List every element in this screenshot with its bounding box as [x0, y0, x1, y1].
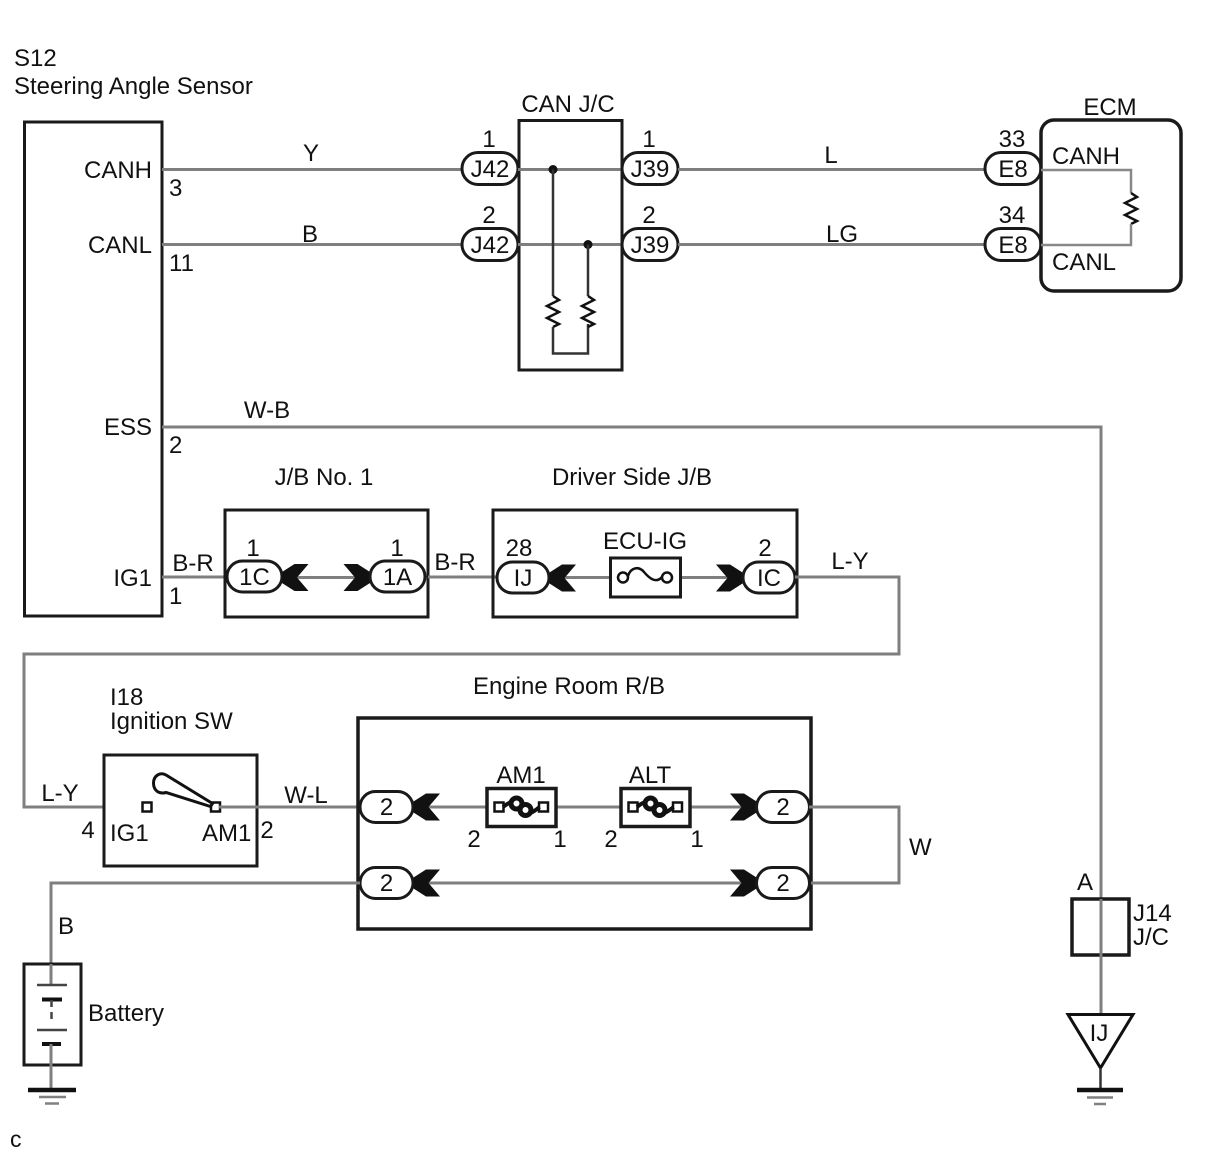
junction block Engine Room R/B box — [358, 673, 811, 929]
svg-text:J39: J39 — [631, 232, 670, 259]
svg-text:CAN J/C: CAN J/C — [521, 91, 614, 118]
switch contact IG1 — [143, 803, 152, 812]
svg-text:2: 2 — [604, 826, 617, 853]
svg-text:1: 1 — [169, 583, 182, 610]
svg-text:CANL: CANL — [88, 232, 152, 259]
svg-text:Battery: Battery — [88, 1000, 164, 1027]
svg-text:CANH: CANH — [1052, 143, 1120, 170]
connector 2 row1 right — [757, 792, 810, 823]
pin ESS of S12 — [104, 414, 182, 459]
svg-text:IJ: IJ — [514, 565, 533, 592]
component S12 Steering Angle Sensor box — [14, 45, 253, 616]
svg-text:S12: S12 — [14, 45, 57, 72]
svg-text:ECM: ECM — [1083, 94, 1136, 121]
connector 2 row1 left — [360, 792, 413, 823]
svg-text:2: 2 — [169, 432, 182, 459]
connector IJ pin 28 — [497, 535, 549, 593]
wire inside ECM bottom — [1041, 224, 1131, 245]
wire CANL through CAN J/C — [518, 243, 622, 246]
svg-text:2: 2 — [467, 826, 480, 853]
connector arrow male before IC — [716, 565, 743, 592]
ground battery — [28, 1090, 76, 1104]
wire CANH (Y) S12 to J42 — [162, 140, 462, 170]
connector arrow female row2 — [414, 870, 441, 897]
wire through J14 to IJ ground point — [1100, 899, 1103, 1014]
connector E8 pin 34 — [985, 202, 1041, 261]
svg-text:2: 2 — [758, 535, 771, 562]
svg-text:B: B — [58, 913, 74, 940]
svg-text:1: 1 — [553, 826, 566, 853]
pin 2 AM1 of ignition switch — [202, 817, 274, 847]
connector 2 row2 right — [757, 868, 810, 899]
wire CANH through CAN J/C — [518, 168, 622, 171]
wire W-L switch to Engine Room R/B — [219, 782, 360, 809]
svg-text:W: W — [909, 834, 932, 861]
connector arrow female row1 — [414, 794, 441, 821]
svg-text:2: 2 — [776, 870, 789, 897]
wire battery to ground — [50, 1044, 53, 1090]
connector 1C pin 1 — [227, 535, 282, 592]
svg-text:Y: Y — [303, 140, 319, 167]
svg-text:AM1: AM1 — [496, 762, 545, 789]
wire W-B ESS to J14 — [162, 397, 1101, 899]
ground IJ — [1077, 1090, 1123, 1104]
svg-text:ECU-IG: ECU-IG — [603, 528, 687, 555]
wire W row1 to row2 — [809, 807, 932, 883]
svg-text:1: 1 — [482, 126, 495, 153]
wire B row2 to battery — [51, 883, 360, 964]
ground point IJ triangle — [1068, 1015, 1133, 1069]
pin CANH of S12 — [84, 157, 182, 202]
svg-text:W-B: W-B — [244, 397, 290, 424]
switch I18 Ignition SW box — [104, 684, 257, 866]
svg-text:CANH: CANH — [84, 157, 152, 184]
pin IG1 of S12 — [113, 565, 182, 610]
wire below left resistor — [553, 324, 588, 354]
wire B-R S12 IG1 to J/B — [162, 550, 227, 577]
connector arrow male row1 — [730, 794, 757, 821]
terminating resistor left in CAN J/C — [547, 296, 559, 327]
svg-text:4: 4 — [81, 817, 94, 844]
connector J39 pin 2 — [622, 202, 678, 261]
fusible link ALT — [604, 762, 703, 853]
wire from CANL junction down — [587, 245, 590, 297]
svg-text:A: A — [1077, 869, 1093, 896]
svg-text:2: 2 — [776, 794, 789, 821]
svg-text:Engine Room R/B: Engine Room R/B — [473, 673, 665, 700]
svg-text:1A: 1A — [383, 564, 412, 591]
connector arrow female after IJ — [550, 565, 577, 592]
connector 2 row2 left — [360, 868, 413, 899]
svg-text:E8: E8 — [998, 232, 1027, 259]
svg-text:B-R: B-R — [172, 550, 213, 577]
svg-text:J14: J14 — [1133, 900, 1172, 927]
connector arrow male before 1A — [344, 564, 371, 591]
wire inside J/B No.1 — [282, 576, 370, 579]
svg-text:IJ: IJ — [1090, 1020, 1109, 1047]
svg-text:L: L — [824, 142, 837, 169]
wire from CANH junction down — [552, 170, 555, 297]
wire inside ECM top — [1041, 170, 1131, 193]
svg-text:J39: J39 — [631, 156, 670, 183]
svg-text:CANL: CANL — [1052, 249, 1116, 276]
svg-text:J/B No. 1: J/B No. 1 — [275, 464, 374, 491]
connector E8 pin 33 — [985, 126, 1041, 185]
junction block J/B No. 1 box — [225, 464, 428, 617]
wire B-R 1A to Driver Side J/B — [428, 549, 497, 577]
wire L-Y from IC down and across to ignition switch — [24, 548, 899, 807]
svg-text:2: 2 — [260, 817, 273, 844]
connector arrow female after 1C — [282, 564, 309, 591]
svg-text:28: 28 — [506, 535, 533, 562]
svg-text:1: 1 — [690, 826, 703, 853]
svg-text:33: 33 — [999, 126, 1026, 153]
terminating resistor right in CAN J/C — [582, 296, 594, 327]
svg-text:W-L: W-L — [284, 782, 328, 809]
svg-text:Ignition SW: Ignition SW — [110, 708, 233, 735]
pin 4 IG1 of ignition switch — [81, 817, 148, 847]
wire row1 inside Engine Room R/B — [413, 806, 757, 809]
junction block Driver Side J/B box — [493, 464, 797, 617]
svg-text:Driver Side J/B: Driver Side J/B — [552, 464, 712, 491]
svg-text:IG1: IG1 — [110, 820, 149, 847]
fusible link AM1 — [467, 762, 566, 853]
svg-text:E8: E8 — [998, 156, 1027, 183]
svg-text:3: 3 — [169, 175, 182, 202]
svg-text:ESS: ESS — [104, 414, 152, 441]
ECU U1 ECM box — [1041, 94, 1181, 291]
junction node on CANL — [584, 240, 593, 249]
wire CANL (B) S12 to J42 — [162, 221, 462, 248]
svg-text:2: 2 — [642, 202, 655, 229]
junction connector J14 J/C — [1072, 899, 1172, 955]
svg-text:2: 2 — [380, 870, 393, 897]
svg-text:LG: LG — [826, 221, 858, 248]
svg-text:I18: I18 — [110, 684, 143, 711]
junction block CAN J/C box — [519, 91, 622, 370]
svg-text:B-R: B-R — [434, 549, 475, 576]
svg-text:B: B — [302, 221, 318, 248]
svg-text:IG1: IG1 — [113, 565, 152, 592]
wire L J39 to E8 — [678, 142, 985, 170]
svg-text:J/C: J/C — [1133, 924, 1169, 951]
switch contact AM1 — [211, 803, 220, 812]
wire inside Driver Side J/B — [549, 576, 743, 579]
svg-text:L-Y: L-Y — [831, 548, 868, 575]
svg-text:c: c — [10, 1126, 22, 1152]
switch lever — [154, 774, 213, 807]
svg-text:IC: IC — [757, 565, 781, 592]
svg-text:AM1: AM1 — [202, 820, 251, 847]
terminating resistor in ECM — [1125, 193, 1137, 224]
connector arrow male row2 — [730, 870, 757, 897]
fuse ECU-IG — [603, 528, 687, 597]
connector IC pin 2 — [743, 535, 795, 593]
svg-text:11: 11 — [169, 250, 194, 277]
svg-text:34: 34 — [999, 202, 1026, 229]
svg-text:1: 1 — [390, 535, 403, 562]
svg-text:J42: J42 — [471, 232, 510, 259]
svg-text:1: 1 — [246, 535, 259, 562]
svg-text:2: 2 — [380, 794, 393, 821]
junction node on CANH — [549, 165, 558, 174]
wire row2 inside Engine Room R/B — [413, 882, 757, 885]
connector J42 pin 2 — [462, 202, 518, 261]
svg-text:ALT: ALT — [629, 762, 672, 789]
connector J42 pin 1 — [462, 126, 518, 185]
svg-text:1C: 1C — [239, 564, 270, 591]
connector J39 pin 1 — [622, 126, 678, 185]
wire LG J39 to E8 — [678, 221, 985, 248]
svg-text:Steering Angle Sensor: Steering Angle Sensor — [14, 73, 253, 100]
wire IJ apex to ground — [1099, 1068, 1102, 1090]
svg-text:2: 2 — [482, 202, 495, 229]
svg-text:1: 1 — [642, 126, 655, 153]
pin CANL of S12 — [88, 232, 194, 277]
svg-text:J42: J42 — [471, 156, 510, 183]
battery B1 — [24, 964, 164, 1065]
svg-text:L-Y: L-Y — [41, 780, 78, 807]
connector 1A pin 1 — [370, 535, 425, 592]
